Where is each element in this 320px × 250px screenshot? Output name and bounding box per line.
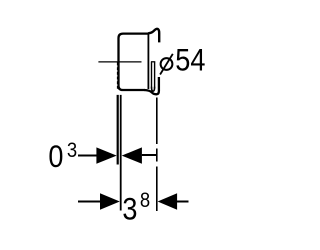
dim 3.8 right arrow	[158, 193, 178, 209]
body outline (clip cross-section: top, left, bottom)	[119, 34, 149, 90]
dim 0.3 right arrow	[122, 147, 142, 163]
dim 0.3 left arrow	[96, 147, 116, 163]
centre line	[98, 61, 141, 63]
hidden edge (dashed, lower left wall)	[117, 63, 119, 89]
extension line C (right, segmented)	[156, 98, 158, 212]
svg-text:0: 0	[48, 139, 63, 174]
slot right line	[154, 62, 156, 87]
dim 0.3 left leader	[78, 155, 97, 157]
slot top cap	[151, 61, 155, 63]
svg-text:3: 3	[122, 192, 137, 227]
retaining hook (top right)	[148, 29, 159, 43]
label dia 54: phi symbol	[161, 58, 173, 70]
extension line A (outer wall)	[117, 95, 119, 165]
dim 3.8 right leader	[177, 201, 189, 203]
svg-text:3: 3	[67, 139, 77, 163]
dim 3.8 left leader	[78, 201, 100, 203]
dim 0.3 right leader	[142, 154, 156, 156]
svg-text:8: 8	[140, 189, 150, 213]
body inner right edge	[147, 34, 149, 89]
extension line B (inner wall)	[120, 95, 122, 211]
folded rim wrap (bottom right)	[144, 77, 159, 94]
slot left line	[151, 62, 153, 87]
svg-text:54: 54	[175, 43, 205, 78]
slot bottom U	[152, 87, 155, 91]
dim 3.8 left arrow	[100, 193, 120, 209]
